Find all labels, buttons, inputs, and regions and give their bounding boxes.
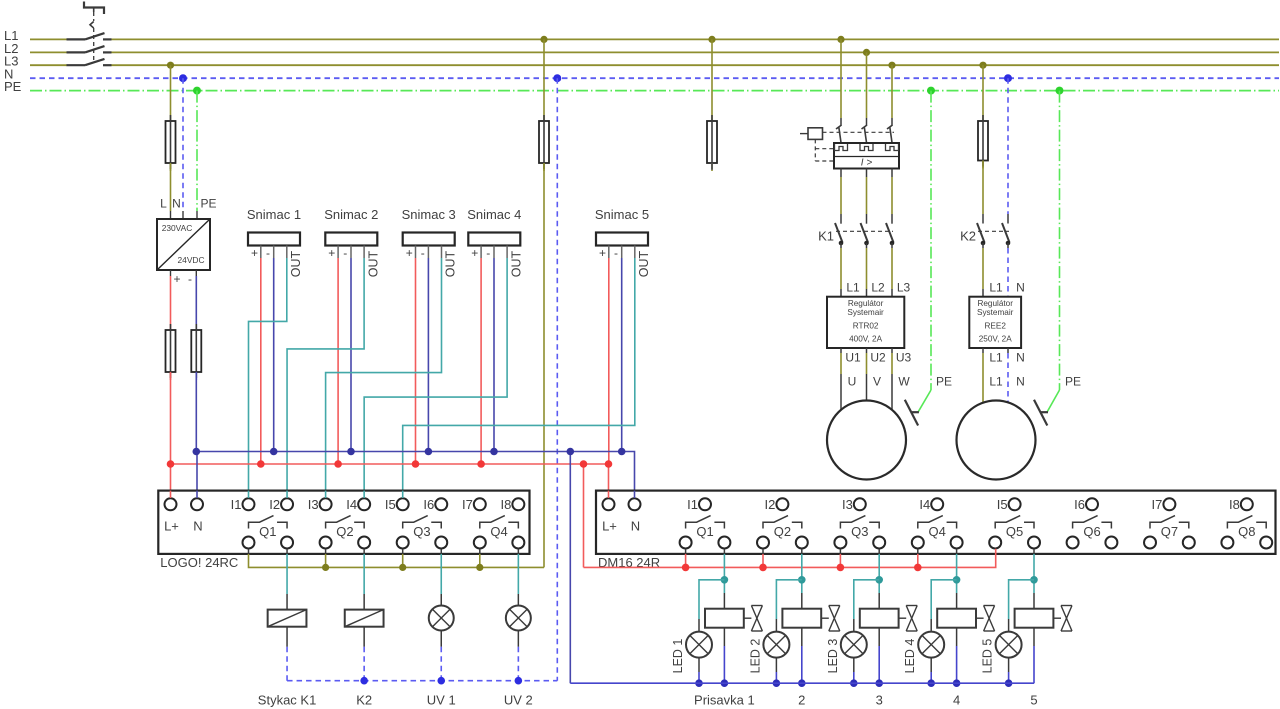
svg-text:-: -	[266, 246, 270, 260]
fuse F2 (24V +)	[170, 322, 172, 332]
junction M bus x=570.3	[567, 448, 575, 456]
junction M bus x=273.7	[270, 448, 278, 456]
junction return bus LED 2	[773, 679, 781, 687]
wire 230V bus to LOGO relay commons	[249, 554, 545, 568]
svg-text:Stykac K1: Stykac K1	[258, 693, 317, 708]
wire RTR02 to motor M1 x=892	[891, 348, 893, 353]
svg-text:Q4: Q4	[490, 524, 507, 539]
svg-text:I1: I1	[687, 497, 698, 512]
junction DM16 Q4 output x=956.6	[953, 576, 961, 584]
wire overload to K1 contact x=841	[840, 169, 842, 178]
relay output Q5 terminals	[989, 537, 1001, 549]
terminal L+ (DM16 24R)	[603, 498, 615, 510]
svg-text:LED 1: LED 1	[671, 639, 685, 674]
svg-text:I3: I3	[842, 497, 853, 512]
wire Snimac 4 - to M bus	[493, 258, 495, 452]
junction L+ bus x=260.8	[257, 460, 265, 468]
svg-text:PE: PE	[4, 79, 22, 94]
wire relay 2 to return bus	[801, 628, 803, 646]
svg-text:Q2: Q2	[336, 524, 353, 539]
svg-text:Prisavka 1: Prisavka 1	[694, 693, 755, 708]
wire Snimac 2 OUT to LOGO I2	[287, 258, 364, 498]
wire DM16 Q5 output drop	[1033, 549, 1035, 554]
junction L+ bus x=481.1	[477, 460, 485, 468]
motor M1	[827, 401, 906, 480]
svg-text:N: N	[1016, 375, 1025, 389]
svg-text:Q2: Q2	[774, 524, 791, 539]
wire Snimac 4 OUT to LOGO I4	[364, 258, 507, 498]
junction return bus relay 2	[798, 679, 806, 687]
fuse F3 (24V -)	[195, 322, 197, 332]
contactor coil K2	[363, 594, 365, 610]
wire PE to motor M2	[1059, 91, 1061, 390]
wire stub below fuse F4	[711, 163, 713, 170]
lamp UV 1	[440, 594, 442, 606]
sensor Snimac 4	[468, 233, 520, 246]
relay output Q3 contact	[403, 516, 428, 529]
terminal I4 (LOGO! 24RC)	[358, 498, 370, 510]
wire F3 down to M bus	[195, 372, 197, 452]
wire LOGO Q common stub x=325.6	[325, 549, 327, 554]
main breaker Q handle	[84, 2, 104, 15]
junction L1 to control fuse	[540, 36, 547, 43]
svg-text:-: -	[343, 246, 347, 260]
svg-text:I1: I1	[231, 497, 242, 512]
lamp LED 1	[686, 632, 712, 658]
svg-text:Snimac 2: Snimac 2	[324, 207, 378, 222]
wire Snimac 3 OUT to LOGO I3	[326, 258, 442, 498]
junction DM16 L+ feed x=840.4	[837, 564, 845, 572]
junction L1 to spare fuse	[708, 36, 715, 43]
main breaker trip chevron	[90, 22, 94, 29]
relay output Q5 contact	[995, 516, 1020, 529]
wire stub LOGO N inside	[196, 491, 198, 498]
svg-text:LED 5: LED 5	[981, 639, 995, 674]
lamp UV 2	[517, 594, 519, 606]
svg-text:Snimac 1: Snimac 1	[247, 207, 301, 222]
wire N to K2 contact	[1007, 78, 1009, 214]
lamp LED 5	[996, 632, 1022, 658]
wire stub LOGO I4 inside	[363, 491, 365, 498]
junction 230V bus x=325.6	[322, 564, 329, 571]
overload heater element x=841	[835, 144, 848, 151]
junction N return bus x=364.15	[360, 677, 368, 685]
wire K1 to regulator RTR02 x=892	[891, 243, 893, 248]
svg-text:PE: PE	[200, 197, 216, 211]
svg-text:I8: I8	[501, 497, 512, 512]
relay coil Prisavka 2	[801, 593, 803, 609]
lamp LED 3	[841, 632, 867, 658]
motor M1 PE sliding contact	[905, 400, 918, 426]
overload relay F6 body	[834, 143, 899, 169]
junction return bus LED 5	[1005, 679, 1013, 687]
svg-text:I5: I5	[385, 497, 396, 512]
junction DM16 Q2 output x=801.8	[798, 576, 806, 584]
relay output Q4 terminals	[474, 537, 486, 549]
wire Snimac 2 + to L+ bus	[337, 258, 339, 464]
fuse F1 (PSU line)	[170, 113, 172, 123]
terminal I3 (DM16 24R)	[854, 498, 866, 510]
relay output Q1 contact	[686, 516, 711, 529]
relay output Q8 contact	[1227, 516, 1252, 529]
terminal I1 (LOGO! 24RC)	[243, 498, 255, 510]
svg-text:Q5: Q5	[1006, 524, 1023, 539]
svg-text:Regulátor: Regulátor	[977, 299, 1013, 308]
svg-text:N: N	[631, 519, 640, 534]
svg-text:K2: K2	[356, 693, 372, 708]
wire PSU + to fuse F2	[170, 270, 172, 276]
contactor coil K1	[286, 594, 288, 610]
wire F2 down to L+ bus	[170, 372, 172, 464]
svg-text:K1: K1	[818, 229, 834, 244]
svg-text:I6: I6	[1074, 497, 1085, 512]
wire branch to LED 4	[931, 580, 956, 619]
wire Snimac 3 + to L+ bus	[415, 258, 417, 464]
svg-text:L1: L1	[846, 281, 860, 295]
terminal I2 (LOGO! 24RC)	[281, 498, 293, 510]
MPCB trip unit square	[808, 128, 823, 140]
PLC module LOGO! 24RC body	[158, 491, 529, 554]
svg-text:V: V	[873, 375, 881, 389]
svg-text:230VAC: 230VAC	[162, 223, 193, 233]
junction N to K2 branch	[1004, 74, 1012, 82]
net PE rail	[30, 90, 1279, 92]
terminal N (DM16 24R)	[629, 498, 641, 510]
svg-text:W: W	[898, 375, 910, 389]
relay coil Prisavka 1	[723, 593, 725, 609]
wire Snimac 5 + to L+ bus	[608, 258, 610, 464]
wire LOGO Q1 output drop	[286, 549, 288, 554]
wire overload to K1 contact x=892	[891, 169, 893, 178]
svg-text:REE2: REE2	[985, 322, 1007, 331]
svg-text:I >: I >	[861, 158, 873, 169]
svg-text:PE: PE	[1065, 375, 1081, 389]
junction 230V bus x=479.8	[476, 564, 483, 571]
junction DM16 Q5 output x=1034.0	[1030, 576, 1038, 584]
svg-text:-: -	[421, 246, 425, 260]
wire Snimac 5 - to M bus	[621, 258, 623, 452]
junction N return bus x=518.35	[515, 677, 523, 685]
svg-text:Q4: Q4	[929, 524, 946, 539]
junction M bus x=621.7	[618, 448, 626, 456]
wire DM16 Q4 output drop	[956, 549, 958, 554]
wire K2 coil to N bus	[363, 627, 365, 647]
main breaker pole at y=65.2	[67, 64, 86, 66]
svg-text:L1: L1	[989, 281, 1003, 295]
contactor K2 contact x=983	[977, 223, 985, 243]
wire stub LOGO I2 inside	[286, 491, 288, 498]
svg-text:Q1: Q1	[696, 524, 713, 539]
svg-text:Snimac 5: Snimac 5	[595, 207, 649, 222]
svg-text:-: -	[188, 272, 192, 286]
wire overload to K1 contact x=866.5	[866, 169, 868, 178]
lamp LED 2	[763, 632, 789, 658]
main breaker pole at y=52.4	[67, 51, 86, 53]
svg-text:Snimac 3: Snimac 3	[402, 207, 456, 222]
svg-text:U1: U1	[845, 351, 861, 365]
power supply U1 230VAC/24VDC	[157, 219, 210, 270]
relay output Q6 contact	[1073, 516, 1098, 529]
svg-text:OUT: OUT	[366, 250, 380, 277]
wire PE tap down to PSU PE terminal	[196, 91, 198, 211]
relay output Q1 contact	[249, 516, 274, 529]
terminal I8 (DM16 24R)	[1241, 498, 1253, 510]
junction N return bus x=441.25	[437, 677, 445, 685]
wire Snimac 1 - to M bus	[273, 258, 275, 452]
wire DM16 Q3 output drop	[878, 549, 880, 554]
svg-text:N: N	[1016, 281, 1025, 295]
svg-text:I3: I3	[308, 497, 319, 512]
junction PE to PSU	[193, 87, 201, 95]
junction N to control	[553, 74, 561, 82]
svg-text:I4: I4	[919, 497, 930, 512]
junction return bus relay 1	[721, 679, 729, 687]
wire M 0V bus	[196, 452, 634, 498]
relay output Q6 terminals	[1067, 537, 1079, 549]
relay coil Prisavka 4	[956, 593, 958, 609]
wire N drop to UV/contactor coil return bus	[556, 78, 558, 681]
svg-text:I2: I2	[765, 497, 776, 512]
wire PE to motor M1	[930, 91, 932, 390]
terminal I7 (LOGO! 24RC)	[474, 498, 486, 510]
contactor K1 contact x=892	[886, 223, 894, 243]
fuse F4 (spare)	[711, 113, 713, 123]
relay output Q4 contact	[918, 516, 943, 529]
junction return bus LED 3	[850, 679, 858, 687]
svg-text:L3: L3	[897, 281, 911, 295]
svg-text:PE: PE	[936, 375, 952, 389]
wire LOGO Q common stub x=402.7	[402, 549, 404, 554]
wire relay 4 to return bus	[956, 628, 958, 646]
junction return bus LED 1	[695, 679, 703, 687]
wire L+ 24V bus	[171, 463, 609, 465]
wire DM16 Q3 common stub	[839, 549, 841, 554]
junction N to PSU	[179, 74, 187, 82]
wire L+ bus drop to DM16 output bus	[583, 464, 585, 567]
wire branch to LED 5	[1009, 580, 1034, 619]
wire Snimac 5 OUT to LOGO I5	[403, 258, 635, 498]
valve symbol 3	[899, 617, 907, 619]
svg-text:OUT: OUT	[444, 250, 458, 277]
svg-text:LED 2: LED 2	[748, 639, 762, 674]
junction M bus x=494	[490, 448, 498, 456]
svg-text:U3: U3	[896, 351, 912, 365]
svg-text:I4: I4	[346, 497, 357, 512]
terminal I3 (LOGO! 24RC)	[320, 498, 332, 510]
svg-text:L1: L1	[989, 351, 1003, 365]
junction M bus x=351	[347, 448, 355, 456]
contactor K1 contact x=841	[835, 223, 843, 243]
wire LOGO Q3 output drop	[440, 549, 442, 554]
wire K2 to regulator REE2 (L1)	[982, 243, 984, 248]
svg-text:4: 4	[953, 693, 960, 708]
wire branch to LED 2	[776, 580, 801, 619]
regulator U3 REE2	[969, 297, 1021, 348]
svg-text:Q6: Q6	[1083, 524, 1100, 539]
relay output Q1 terminals	[680, 537, 692, 549]
relay output Q4 terminals	[912, 537, 924, 549]
wire DM16 Q2 output drop	[801, 549, 803, 554]
svg-text:I7: I7	[1152, 497, 1163, 512]
svg-text:-: -	[486, 246, 490, 260]
junction L3 to K2 branch	[979, 62, 986, 69]
junction L+ bus x=415.5	[412, 460, 420, 468]
wire L1 tap to fuse F5	[543, 39, 545, 113]
svg-text:LED 3: LED 3	[826, 639, 840, 674]
svg-text:U: U	[848, 375, 857, 389]
terminal N (LOGO! 24RC)	[191, 498, 203, 510]
overload heater element x=892	[886, 144, 899, 151]
junction PE to motor M2	[1056, 87, 1064, 95]
wire N return bus (dashed)	[287, 680, 557, 682]
svg-text:I8: I8	[1229, 497, 1240, 512]
junction L1 to K1 branch	[837, 36, 844, 43]
wire L+ bus to LOGO L+	[170, 464, 172, 498]
svg-text:L+: L+	[602, 519, 617, 534]
wire Snimac 3 - to M bus	[427, 258, 429, 452]
overload heater element x=866.5	[860, 144, 873, 151]
wire REE2 to motor M2 (L1)	[982, 348, 984, 353]
wire F7 to K2 contact	[982, 161, 984, 215]
terminal I2 (DM16 24R)	[776, 498, 788, 510]
wire stub LOGO I3 inside	[325, 491, 327, 498]
wire LED 4 to return bus	[930, 658, 932, 672]
svg-text:5: 5	[1030, 693, 1037, 708]
wire L3 tap to fuse F7	[982, 65, 984, 113]
wire LED 2 to return bus	[775, 658, 777, 672]
junction DM16 L+ feed x=917.8000000000001	[914, 564, 922, 572]
junction L3 to PSU	[167, 62, 174, 69]
svg-text:Systemair: Systemair	[847, 308, 884, 317]
svg-text:Systemair: Systemair	[977, 308, 1014, 317]
fuse F5 (control 230V)	[543, 113, 545, 123]
wire LED 5 to return bus	[1008, 658, 1010, 672]
svg-text:N: N	[193, 519, 202, 534]
net L2 rail	[30, 51, 67, 53]
wire Snimac 4 + to L+ bus	[480, 258, 482, 464]
wire stub LOGO L+ inside	[170, 491, 172, 498]
svg-text:L2: L2	[871, 281, 885, 295]
svg-text:OUT: OUT	[509, 250, 523, 277]
svg-text:N: N	[172, 197, 181, 211]
wire Snimac 2 - to M bus	[350, 258, 352, 452]
contactor K1 linkage	[836, 230, 893, 232]
svg-text:UV 2: UV 2	[504, 693, 533, 708]
terminal I6 (LOGO! 24RC)	[435, 498, 447, 510]
junction return bus relay 4	[953, 679, 961, 687]
junction M bus x=196.3	[193, 448, 201, 456]
junction return bus relay 3	[875, 679, 883, 687]
junction 230V bus x=402.7	[399, 564, 406, 571]
svg-text:N: N	[1016, 351, 1025, 365]
relay output Q2 contact	[763, 516, 788, 529]
svg-text:-: -	[614, 246, 618, 260]
wire LOGO Q common stub x=479.8	[479, 549, 481, 554]
sensor Snimac 3	[403, 233, 455, 246]
contactor K1 contact x=866.5	[861, 223, 869, 243]
wire K1 to regulator RTR02 x=866.5	[866, 243, 868, 248]
wire branch to LED 1	[699, 580, 724, 619]
svg-text:U2: U2	[870, 351, 886, 365]
wire K2 to regulator REE2 (N)	[1007, 243, 1009, 248]
svg-text:Regulátor: Regulátor	[848, 299, 884, 308]
svg-text:LED 4: LED 4	[903, 639, 917, 674]
wire L3 tap down to fuse F1	[170, 65, 172, 113]
svg-text:L: L	[160, 197, 167, 211]
svg-text:+: +	[173, 272, 180, 286]
regulator U2 RTR02	[827, 297, 904, 348]
net N rail	[30, 77, 1279, 79]
wire DM16 Q2 common stub	[762, 549, 764, 554]
svg-text:Snimac 4: Snimac 4	[467, 207, 521, 222]
svg-text:RTR02: RTR02	[853, 322, 879, 331]
svg-text:2: 2	[798, 693, 805, 708]
contactor K2 contact x=1008	[1002, 223, 1010, 243]
net L3 rail	[30, 64, 67, 66]
junction L3 to K1 branch	[888, 62, 895, 69]
terminal L+ (LOGO! 24RC)	[165, 498, 177, 510]
svg-text:I6: I6	[423, 497, 434, 512]
lamp LED 4	[918, 632, 944, 658]
relay output Q3 contact	[840, 516, 865, 529]
relay output Q3 terminals	[397, 537, 409, 549]
svg-text:OUT: OUT	[637, 250, 651, 277]
sensor Snimac 1	[248, 233, 300, 246]
wire stub DM16 N inside	[634, 491, 636, 498]
svg-text:Q3: Q3	[413, 524, 430, 539]
PLC module DM16 24R body	[596, 491, 1276, 554]
junction DM16 Q3 output x=879.1999999999999	[875, 576, 883, 584]
net L1 rail	[30, 38, 67, 40]
wire stub LOGO I1 inside	[248, 491, 250, 498]
wire F1 to PSU L terminal	[170, 163, 172, 211]
relay coil Prisavka 3	[878, 593, 880, 609]
terminal I5 (LOGO! 24RC)	[397, 498, 409, 510]
relay output Q8 terminals	[1221, 537, 1233, 549]
sensor Snimac 2	[325, 233, 377, 246]
terminal I5 (DM16 24R)	[1009, 498, 1021, 510]
wire PSU - to fuse F3	[195, 270, 197, 276]
svg-text:L+: L+	[164, 519, 179, 534]
wire relay 3 to return bus	[878, 628, 880, 646]
wire L feed to MPCB x=841	[840, 39, 842, 118]
wire relay 1 to return bus	[723, 628, 725, 646]
wire L+ feed bus to DM16 relay commons	[584, 549, 996, 568]
svg-text:I5: I5	[997, 497, 1008, 512]
wire LED return bus	[570, 682, 1034, 684]
valve symbol 5	[1053, 617, 1061, 619]
svg-text:+: +	[251, 246, 258, 260]
junction DM16 Q1 output x=724.4	[721, 576, 729, 584]
wire M bus drop to LED return bus	[569, 452, 571, 684]
relay output Q2 terminals	[320, 537, 332, 549]
svg-text:250V, 2A: 250V, 2A	[979, 335, 1012, 344]
relay output Q4 contact	[480, 516, 505, 529]
svg-text:Q3: Q3	[851, 524, 868, 539]
MPCB breaker contact x=866.5	[862, 125, 868, 129]
terminal I4 (DM16 24R)	[931, 498, 943, 510]
junction L+ bus x=338.1	[334, 460, 342, 468]
svg-text:+: +	[599, 246, 606, 260]
wire stub LOGO I5 inside	[402, 491, 404, 498]
wire REE2 to motor M2 (N)	[1007, 348, 1009, 353]
wire DM16 Q1 output drop	[723, 549, 725, 554]
wire M bus to LOGO N	[196, 452, 198, 498]
svg-text:LOGO! 24RC: LOGO! 24RC	[160, 555, 238, 570]
junction L+ bus x=583.5	[580, 460, 588, 468]
terminal I8 (LOGO! 24RC)	[512, 498, 524, 510]
relay output Q2 terminals	[757, 537, 769, 549]
